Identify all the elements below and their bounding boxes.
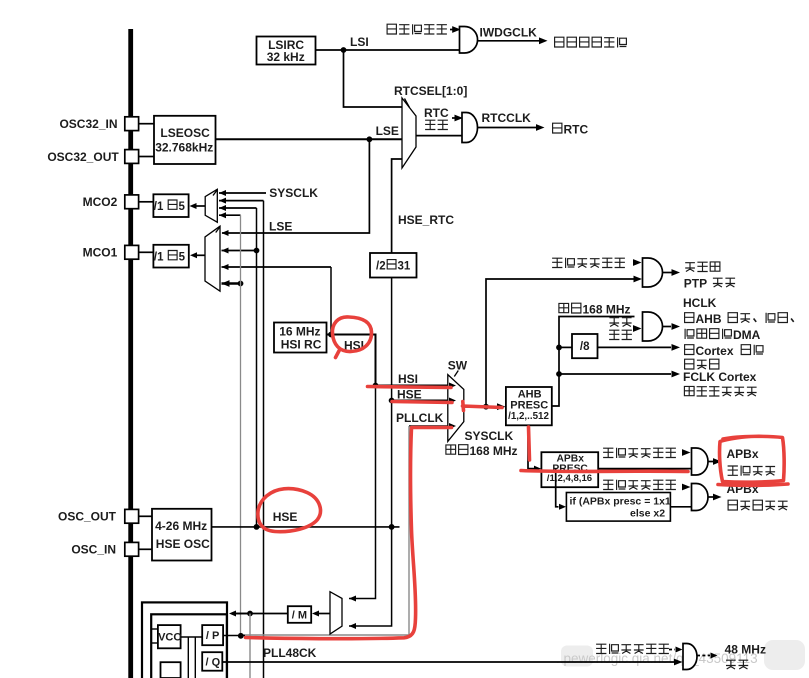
wire MCO1 input HSE xyxy=(222,248,260,254)
wire VCO to dividers xyxy=(181,637,203,678)
wire PLLCLK into SW xyxy=(409,423,456,429)
mux SW system clock select xyxy=(448,371,464,442)
svg-text:LSE: LSE xyxy=(376,124,399,138)
wire MCO2 mux output xyxy=(190,203,206,209)
label peripheral clock enable APB1 xyxy=(603,448,676,458)
wire PLL48CK net xyxy=(222,659,682,666)
wire PLL source mux to /M xyxy=(229,611,330,678)
svg-text:/1,2,4,8,16: /1,2,4,8,16 xyxy=(547,473,592,484)
svg-text:PLLCLK: PLLCLK xyxy=(396,411,444,425)
label HSE at SW xyxy=(397,388,422,402)
wire APB1 enable arrow xyxy=(682,449,691,456)
wire RTC mux output xyxy=(416,135,462,137)
wire MCO2 input PLLI2S xyxy=(219,198,264,204)
wire IWDGCLK output xyxy=(478,37,548,44)
svg-text:SYSCLK: SYSCLK xyxy=(269,186,318,200)
wire PTP enable arrow xyxy=(633,259,642,266)
and-gate U1 IWDG clock gate xyxy=(460,27,478,54)
pin MCO2 xyxy=(83,195,139,209)
svg-text:RTCCLK: RTCCLK xyxy=(482,111,532,125)
svg-text:MCO1: MCO1 xyxy=(83,246,118,260)
svg-text:Cortex: Cortex xyxy=(696,344,734,358)
pin OSC_OUT xyxy=(58,509,139,523)
divider MCO2 /1 to 5 xyxy=(153,194,188,217)
svg-text:4-26 MHz: 4-26 MHz xyxy=(155,519,207,533)
svg-text:if (APBx presc = 1x1: if (APBx presc = 1x1 xyxy=(570,496,671,508)
wire AHB output vertical xyxy=(552,317,635,407)
svg-text:/ Q: / Q xyxy=(206,656,221,668)
label PTP clock xyxy=(684,277,735,291)
svg-text:HSI RC: HSI RC xyxy=(281,337,322,351)
label RTCCLK xyxy=(482,111,532,125)
wire pin OSC_OUT to HSE OSC xyxy=(139,515,152,517)
annotation red trace PLLCLK path xyxy=(246,428,452,639)
wire branch to if box xyxy=(556,469,566,510)
wire SYSCLK vertical to ethernet PTP gate xyxy=(486,276,642,407)
wire PLLCLK from /P xyxy=(223,633,245,639)
label IWDGCLK xyxy=(480,26,538,40)
svg-text:32 kHz: 32 kHz xyxy=(267,50,305,64)
PLL multiplier N box xyxy=(161,662,181,678)
label RTC enable xyxy=(424,106,449,130)
label LSE at MCO1 xyxy=(269,220,292,234)
svg-text:5: 5 xyxy=(179,251,186,263)
label peripheral clock enable APB2 xyxy=(603,480,676,490)
svg-text:DMA: DMA xyxy=(733,328,761,342)
wire 48MHz gate dashed output xyxy=(697,653,718,659)
annotation red scribble APBx peripheral clock xyxy=(718,436,788,485)
wire PTP gate output xyxy=(663,269,681,276)
label LSI xyxy=(350,35,369,49)
divider MCO1 /1 to 5 xyxy=(153,245,188,268)
wire MCO1 mux output xyxy=(190,252,205,258)
svg-text:SYSCLK: SYSCLK xyxy=(465,429,514,443)
svg-text:OSC_OUT: OSC_OUT xyxy=(58,510,117,524)
svg-text:HSE OSC: HSE OSC xyxy=(156,537,210,551)
wire LSE net xyxy=(216,136,403,233)
wire pin OSC32_OUT to LSEOSC xyxy=(139,156,154,158)
svg-text:HSI: HSI xyxy=(398,372,418,386)
svg-text:31: 31 xyxy=(398,260,411,272)
svg-text:/8: /8 xyxy=(580,341,590,353)
PLL outer box xyxy=(142,602,227,678)
wire MCO2 input PLL xyxy=(219,212,241,218)
device boundary bus xyxy=(128,29,133,678)
divider /2 to 31 xyxy=(370,253,417,278)
label HSI at SW xyxy=(398,372,418,386)
svg-text:168 MHz: 168 MHz xyxy=(470,444,518,458)
label PLL48CK xyxy=(263,646,317,660)
label max 168 MHz at SW xyxy=(446,444,518,458)
label RTCSEL[1:0] xyxy=(394,84,467,98)
wire watchdog enable arrow xyxy=(450,26,461,33)
svg-text:/ P: / P xyxy=(206,630,219,642)
PLL inner box xyxy=(151,614,227,678)
wire SYSCLK net SW to AHB PRESC xyxy=(464,403,506,410)
label peripheral clock enable PTP xyxy=(552,258,625,268)
svg-text:LSI: LSI xyxy=(350,35,369,49)
PLL VCO xyxy=(158,625,182,648)
label to independent watchdog xyxy=(555,37,627,47)
svg-text:OSC_IN: OSC_IN xyxy=(71,543,116,557)
divider /8 xyxy=(572,334,598,358)
label HSI circled xyxy=(344,339,364,353)
label peripheral clock enable 48MHz xyxy=(596,644,669,654)
svg-text:PLL48CK: PLL48CK xyxy=(263,646,317,660)
annotation red trace SYSCLK to AHB xyxy=(463,402,503,411)
label SW xyxy=(448,359,468,373)
label memory and DMA xyxy=(685,328,761,342)
wire FCLK output xyxy=(559,371,680,378)
label max 168 MHz top xyxy=(559,303,631,317)
svg-text:48 MHz: 48 MHz xyxy=(725,643,766,657)
wire APBx PRESC output xyxy=(598,468,691,470)
wire pin OSC_IN to HSE OSC xyxy=(139,548,152,550)
mux PLL source select xyxy=(330,592,342,634)
wire HSE vertical through divider xyxy=(349,278,395,630)
label HSE_RTC xyxy=(398,213,454,227)
and-gate U3 ethernet PTP clock gate xyxy=(643,258,663,287)
svg-text:LSE: LSE xyxy=(269,220,292,234)
svg-text:APBx: APBx xyxy=(727,447,759,461)
svg-text:MCO2: MCO2 xyxy=(83,195,118,209)
wire VCO input stubs xyxy=(151,629,158,643)
and-gate U5 APBx peripheral clock gate xyxy=(692,448,708,475)
wire MCO1 input PLL xyxy=(222,280,244,287)
wire HSI vertical to MCO1 xyxy=(330,267,332,335)
wire LSI net xyxy=(316,47,460,107)
label APBx timer A xyxy=(727,482,759,496)
PLL divider /M xyxy=(288,606,311,623)
label APBx peripheral clock xyxy=(728,466,776,476)
oscillator LSEOSC 32.768kHz xyxy=(154,116,216,164)
svg-text:5: 5 xyxy=(179,201,186,213)
label SYSCLK at MCO2 xyxy=(269,186,318,200)
label to AHB bus core memory xyxy=(685,312,794,326)
wire if box output xyxy=(670,506,691,508)
svg-text:PTP: PTP xyxy=(684,277,707,291)
annotation red trace HSI-HSE into SW xyxy=(368,387,453,403)
wire HCLK gate output xyxy=(663,323,681,330)
label to RTC xyxy=(553,123,589,137)
wire HSE vertical to MCO muxes xyxy=(256,208,258,527)
label APBx timer clock xyxy=(728,500,788,510)
wire pin MCO1 to divider xyxy=(139,251,154,253)
wire AHB to APBx PRESC xyxy=(528,425,541,471)
label APBx peripheral A xyxy=(727,447,759,461)
label FCLK Cortex xyxy=(683,370,757,384)
svg-text:/1,2,..512: /1,2,..512 xyxy=(508,411,549,422)
svg-text:16 MHz: 16 MHz xyxy=(279,324,320,338)
svg-text:HSE_RTC: HSE_RTC xyxy=(398,213,454,227)
watermark xyxy=(556,640,805,670)
svg-text:HSE: HSE xyxy=(273,510,298,524)
condition box APBx presc xyxy=(566,493,671,522)
label SYSCLK at SW xyxy=(465,429,514,443)
label to Cortex system xyxy=(685,344,763,358)
wire MCO2 input SYSCLK xyxy=(219,190,266,196)
mux MCO1 source select xyxy=(205,226,220,291)
label clock enable HCLK xyxy=(609,318,632,340)
svg-text:LSEOSC: LSEOSC xyxy=(160,126,210,140)
svg-text:RTC: RTC xyxy=(424,106,449,120)
prescaler AHB PRESC xyxy=(506,387,552,425)
svg-text:OSC32_IN: OSC32_IN xyxy=(59,117,117,131)
label HSE circled xyxy=(273,510,298,524)
wire APB2 enable arrow xyxy=(682,484,691,491)
svg-text:else x2: else x2 xyxy=(630,508,665,520)
label 48 MHz xyxy=(725,643,766,657)
wire /M output to PLL xyxy=(236,613,288,615)
label LSE at RTC mux xyxy=(376,124,399,138)
label timer xyxy=(685,359,719,369)
svg-text:PRESC: PRESC xyxy=(510,400,548,412)
wire APBx peripheral gate output xyxy=(708,458,722,465)
mux MCO2 source select xyxy=(205,189,217,222)
label watchdog enable xyxy=(387,24,447,34)
pin MCO1 xyxy=(83,245,139,259)
svg-text:32.768kHz: 32.768kHz xyxy=(155,141,213,155)
wire PLLI2S vertical to MCO2 xyxy=(263,201,265,678)
wire MCO1 input HSI xyxy=(222,264,332,270)
label ethernet xyxy=(685,262,720,272)
annotation red circle HSE xyxy=(258,489,321,532)
and-gate U2 RTC clock gate xyxy=(462,113,478,143)
pin OSC32_OUT xyxy=(47,150,138,164)
svg-text:RTCSEL[1:0]: RTCSEL[1:0] xyxy=(394,84,467,98)
and-gate U6 APBx timer clock gate xyxy=(692,484,708,511)
svg-text:168 MHz: 168 MHz xyxy=(583,303,631,317)
prescaler APBx PRESC xyxy=(541,452,598,487)
wire pin OSC32_IN to LSEOSC xyxy=(139,123,154,125)
svg-text:IWDGCLK: IWDGCLK xyxy=(480,26,538,40)
pin OSC_IN xyxy=(71,542,138,556)
mux RTC source select xyxy=(402,98,416,168)
wire PLLCLK vertical from PLL xyxy=(243,426,409,635)
wire APBx timer gate output xyxy=(708,494,722,501)
label HCLK xyxy=(683,296,717,310)
oscillator HSI RC 16 MHz xyxy=(274,323,327,353)
svg-text:HCLK: HCLK xyxy=(683,296,717,310)
wire HCLK enable arrow xyxy=(633,325,642,332)
svg-text:FCLK Cortex: FCLK Cortex xyxy=(683,370,757,384)
svg-text:RTC: RTC xyxy=(564,123,589,137)
svg-text:VCO: VCO xyxy=(158,632,182,644)
svg-text:/1: /1 xyxy=(154,251,164,263)
svg-text:/2: /2 xyxy=(376,260,386,272)
label 48MHz clock xyxy=(726,660,748,669)
wire /8 output to Cortex timer xyxy=(598,344,681,351)
wire MCO1 input LSE arrowhead xyxy=(222,230,229,236)
PLL divider /Q xyxy=(202,652,222,671)
wire HSE_RTC into RTC mux xyxy=(392,159,402,253)
annotation red trace AHB down to APBx xyxy=(521,427,688,472)
wire pin MCO2 to divider xyxy=(139,201,154,203)
pin OSC32_IN xyxy=(59,117,138,131)
and-gate U4 HCLK gate xyxy=(643,312,663,341)
wire HSE into SW xyxy=(392,398,456,404)
wire PLL vertical to MCO muxes xyxy=(240,215,242,636)
wire HSI net xyxy=(327,332,449,602)
wire MCO2 input HSE xyxy=(219,205,257,211)
oscillator LSIRC 32 kHz xyxy=(257,37,316,65)
wire HSI arrowhead into SW xyxy=(449,383,456,389)
and-gate U7 48 MHz clock gate xyxy=(683,644,697,670)
wire RTC enable arrow xyxy=(452,115,463,122)
annotation red circle HSI xyxy=(332,317,371,358)
svg-text:/ M: / M xyxy=(292,610,307,622)
label free running clock xyxy=(684,386,756,396)
svg-text:OSC32_OUT: OSC32_OUT xyxy=(47,150,119,164)
svg-text:/1: /1 xyxy=(154,201,164,213)
svg-text:AHB: AHB xyxy=(696,312,722,326)
wire RTCCLK output xyxy=(478,124,545,131)
wire /8 input xyxy=(559,346,572,348)
oscillator HSE OSC 4-26 MHz xyxy=(152,509,212,561)
wire 48MHz enable dashed arrow xyxy=(669,647,683,653)
label PLLCLK xyxy=(396,411,444,425)
svg-text:HSE: HSE xyxy=(397,388,422,402)
PLL divider /P xyxy=(202,625,223,645)
wire HSE net xyxy=(212,524,400,530)
